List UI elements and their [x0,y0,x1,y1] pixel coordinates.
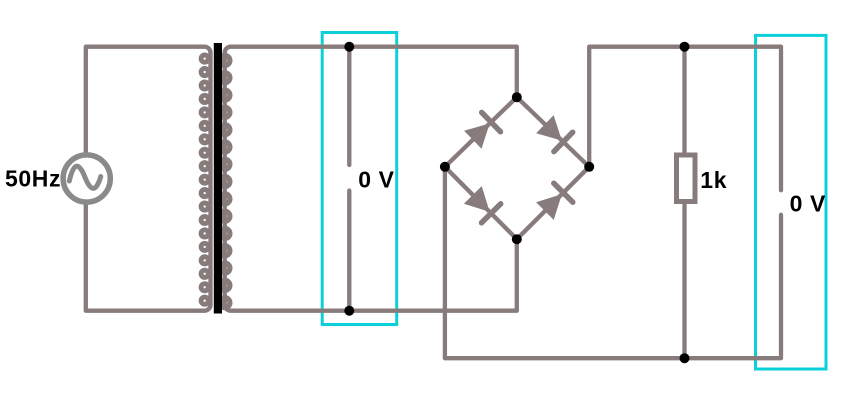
svg-text:0 V: 0 V [790,190,826,216]
svg-text:50Hz: 50Hz [5,166,61,192]
svg-text:0 V: 0 V [358,166,394,192]
svg-text:1k: 1k [700,167,727,193]
